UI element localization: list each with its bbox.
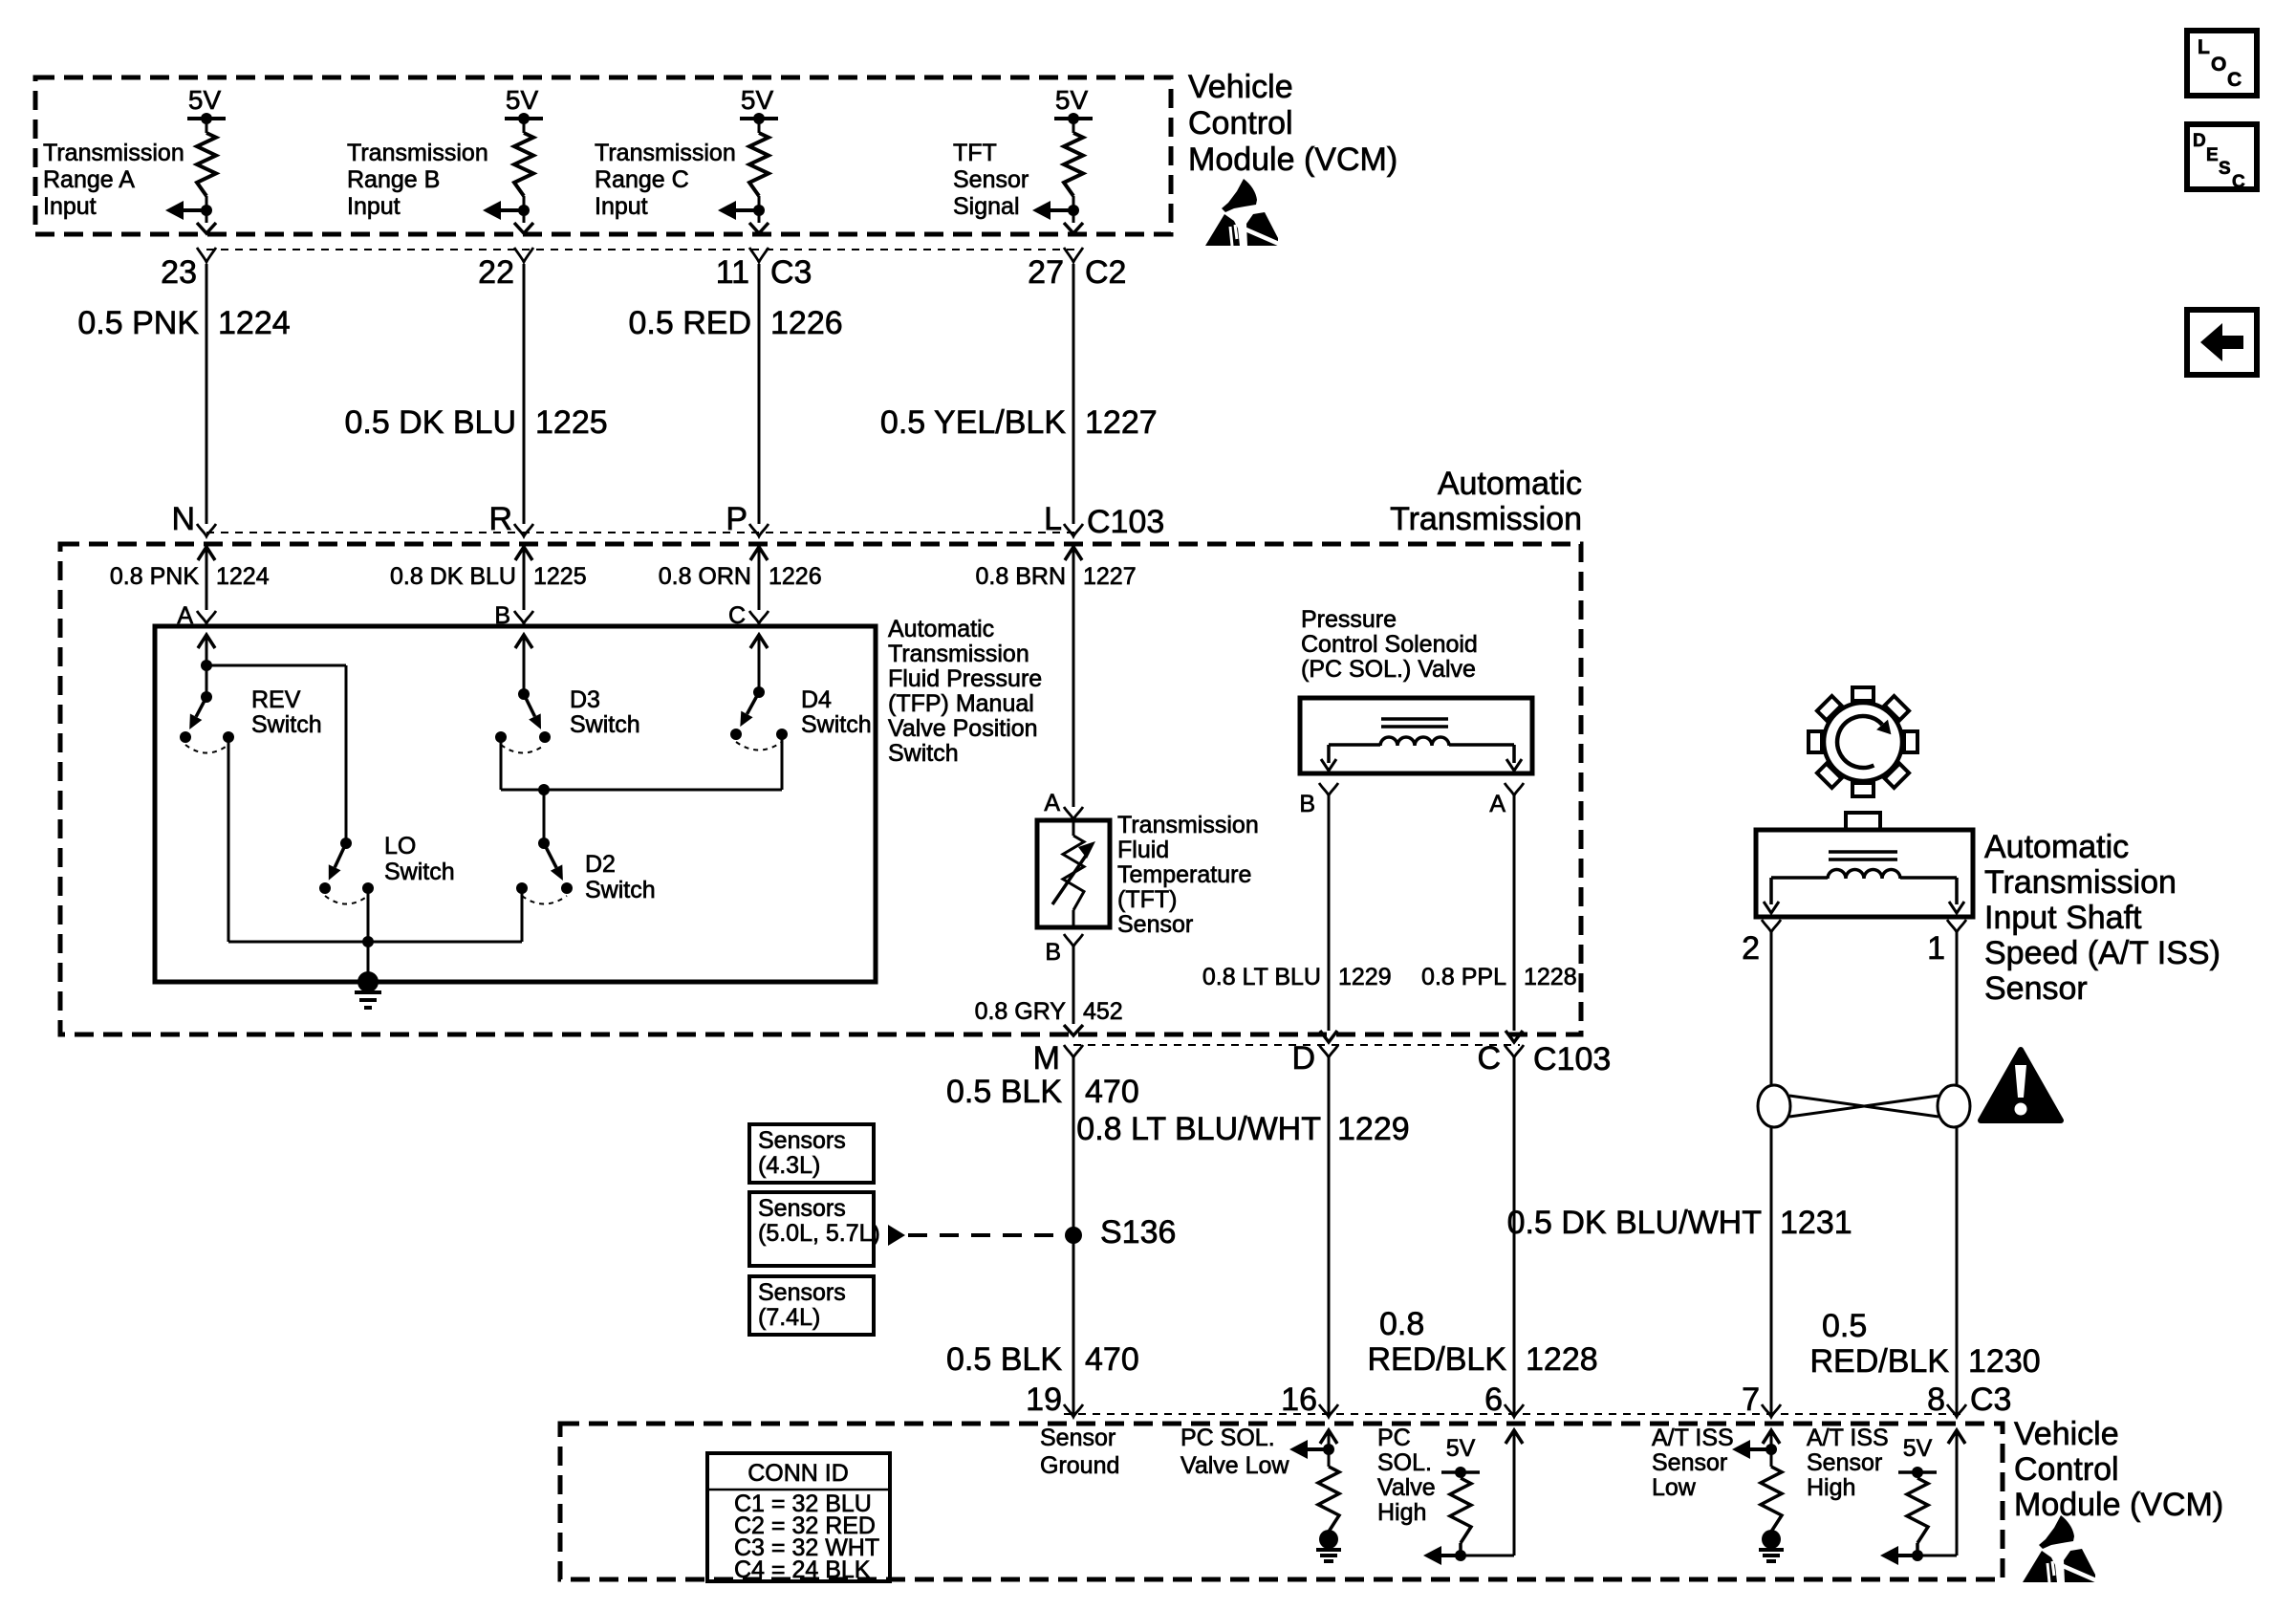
- svg-text:Switch: Switch: [888, 740, 959, 767]
- pc sol valve low input arrow: [1320, 1430, 1337, 1444]
- ground symbol PC SOL low: [1319, 1530, 1338, 1549]
- svg-text:PC SOL.: PC SOL.: [1180, 1425, 1275, 1451]
- down arrow into connector A: [197, 223, 216, 233]
- svg-text:B: B: [1045, 939, 1061, 966]
- 5V bar ISS: [1898, 1470, 1937, 1474]
- svg-text:1227: 1227: [1085, 404, 1158, 441]
- svg-text:O: O: [2211, 54, 2226, 76]
- pin B TFT connector: [1064, 934, 1083, 946]
- switch LO: [340, 838, 352, 849]
- wire A inside switch (arrow up): [198, 635, 215, 648]
- pull-up resistor Range B: [523, 119, 526, 133]
- svg-text:1229: 1229: [1337, 1111, 1410, 1147]
- svg-text:Transmission: Transmission: [43, 140, 184, 166]
- svg-text:470: 470: [1085, 1341, 1139, 1378]
- svg-text:0.8 PNK: 0.8 PNK: [110, 563, 199, 590]
- svg-text:D2: D2: [585, 851, 616, 878]
- connector row VCM pins (thin dashed): [206, 249, 1079, 250]
- svg-text:1225: 1225: [535, 404, 608, 441]
- ground symbol switch box: [357, 971, 379, 992]
- 5V bar PC SOL: [1441, 1470, 1480, 1474]
- svg-text:5V: 5V: [741, 85, 774, 115]
- wire D2 branch: [543, 790, 546, 843]
- switch D3: [518, 688, 530, 700]
- svg-text:Range A: Range A: [43, 166, 135, 193]
- svg-text:Module (VCM): Module (VCM): [2014, 1487, 2223, 1523]
- svg-text:Valve: Valve: [1377, 1474, 1436, 1501]
- svg-text:1226: 1226: [770, 305, 843, 341]
- switch REV: [201, 691, 212, 703]
- wire D2 to ground bus: [521, 888, 524, 942]
- dashed link sensors to S136: [888, 1225, 905, 1246]
- wire 1228 RED/BLK (to VCM): [1513, 1057, 1516, 1414]
- wire 1228 PPL (PC SOL to C103): [1513, 795, 1516, 1031]
- wire 1229 LT BLU/WHT (to VCM): [1328, 1057, 1331, 1414]
- svg-text:0.5 BLK: 0.5 BLK: [946, 1074, 1062, 1110]
- pull-up resistor Range A: [206, 119, 208, 133]
- 5V supply bar 4: [1054, 117, 1093, 120]
- pulldown resistor ISS low: [1761, 1467, 1782, 1532]
- component box: PC SOL valve: [1300, 698, 1532, 773]
- svg-text:A: A: [1044, 790, 1060, 816]
- svg-text:Fluid: Fluid: [1117, 837, 1169, 863]
- wire 1230 RED/BLK (ISS to VCM): [1956, 932, 1959, 1086]
- wire 1226 (C103 to switch): [758, 549, 761, 610]
- svg-text:0.5 RED: 0.5 RED: [629, 305, 752, 341]
- 5V supply bar 2: [505, 117, 543, 120]
- 5V supply bar 3: [740, 117, 778, 120]
- svg-text:(5.0L, 5.7L): (5.0L, 5.7L): [758, 1220, 880, 1247]
- svg-text:Signal: Signal: [953, 193, 1020, 220]
- svg-text:0.5 PNK: 0.5 PNK: [77, 305, 199, 341]
- ground bus wire: [228, 941, 522, 944]
- ESD sensitive device symbol bottom: [2023, 1515, 2098, 1582]
- pulldown resistor PC SOL low: [1318, 1467, 1339, 1532]
- svg-text:RED/BLK: RED/BLK: [1810, 1343, 1950, 1380]
- svg-text:N: N: [171, 501, 195, 537]
- svg-text:11: 11: [716, 254, 749, 291]
- svg-text:470: 470: [1085, 1074, 1139, 1110]
- signal tap arrow A: [182, 208, 210, 212]
- svg-text:0.8 DK BLU: 0.8 DK BLU: [390, 563, 516, 590]
- svg-text:Valve Low: Valve Low: [1180, 1452, 1289, 1479]
- svg-text:1229: 1229: [1338, 964, 1392, 990]
- wire 470 BLK upper: [1072, 1057, 1075, 1414]
- switch D4: [753, 686, 765, 698]
- svg-text:Pressure: Pressure: [1301, 606, 1397, 633]
- svg-text:Transmission: Transmission: [1984, 864, 2177, 901]
- down arrow into connector B: [514, 223, 533, 233]
- signal tap arrow TFT: [1049, 208, 1077, 212]
- svg-text:0.5 DK BLU/WHT: 0.5 DK BLU/WHT: [1507, 1205, 1762, 1241]
- svg-text:1224: 1224: [216, 563, 270, 590]
- svg-text:Automatic: Automatic: [1438, 466, 1582, 502]
- svg-text:Sensor: Sensor: [1652, 1449, 1727, 1476]
- svg-text:Input: Input: [347, 193, 401, 220]
- svg-text:(TFP) Manual: (TFP) Manual: [888, 690, 1034, 717]
- svg-text:Sensors: Sensors: [758, 1127, 846, 1154]
- wire B inside switch (arrow up): [515, 635, 532, 648]
- up arrow wire 1224: [198, 547, 215, 560]
- svg-text:S: S: [2219, 159, 2231, 179]
- pin B PC SOL connector: [1319, 783, 1338, 795]
- svg-text:M: M: [1033, 1040, 1060, 1077]
- svg-text:16: 16: [1281, 1382, 1317, 1418]
- pin 8 connector VCM: [1947, 1404, 1966, 1417]
- up arrow wire 1226: [750, 547, 768, 560]
- svg-text:CONN ID: CONN ID: [747, 1460, 849, 1487]
- svg-text:0.5 BLK: 0.5 BLK: [946, 1341, 1062, 1378]
- svg-text:2: 2: [1742, 930, 1760, 967]
- wire pin 6 to resistor: [1505, 1430, 1523, 1444]
- svg-text:Input Shaft: Input Shaft: [1984, 900, 2142, 936]
- down arrow wire 1228: [1505, 1031, 1523, 1042]
- wire REV to ground bus: [227, 737, 230, 942]
- svg-text:Sensor: Sensor: [1984, 970, 2088, 1007]
- svg-text:S136: S136: [1100, 1214, 1176, 1251]
- svg-text:L: L: [2198, 36, 2210, 58]
- svg-text:452: 452: [1083, 998, 1123, 1025]
- svg-text:5V: 5V: [1903, 1435, 1933, 1462]
- up arrow wire 1227: [1065, 547, 1082, 560]
- pin P connector C103: [749, 524, 769, 536]
- component box: Sensors (4.3L): [749, 1124, 874, 1183]
- solenoid coil PC SOL: [1381, 717, 1448, 721]
- svg-text:PC: PC: [1377, 1425, 1411, 1451]
- svg-text:(7.4L): (7.4L): [758, 1304, 820, 1331]
- wire LO to ground: [367, 888, 370, 982]
- svg-text:Transmission: Transmission: [595, 140, 736, 166]
- wire D3 to D2/D4 bus: [500, 737, 503, 790]
- wire 1227 BRN (C103 to TFT): [1072, 549, 1075, 807]
- twisted pair symbol: [1758, 1085, 1790, 1127]
- svg-text:1228: 1228: [1524, 964, 1577, 990]
- svg-text:Low: Low: [1652, 1474, 1697, 1501]
- svg-text:0.8 LT BLU/WHT: 0.8 LT BLU/WHT: [1076, 1111, 1321, 1147]
- wire A to LO switch: [206, 664, 346, 667]
- wire 1224 PNK (VCM to C103): [206, 264, 208, 524]
- svg-text:(PC SOL.) Valve: (PC SOL.) Valve: [1301, 656, 1476, 683]
- pin 27 connector: [1064, 248, 1083, 262]
- pin 7 connector VCM: [1762, 1404, 1781, 1417]
- svg-text:Automatic: Automatic: [888, 616, 994, 642]
- node D2 branch junction: [538, 784, 550, 795]
- pull-up resistor Range C: [758, 119, 761, 133]
- svg-text:Vehicle: Vehicle: [1188, 69, 1293, 105]
- back arrow nav box: [2187, 310, 2257, 375]
- wire 1227 YEL/BLK (VCM to C103): [1072, 264, 1075, 524]
- wire 1225 DK BLU (VCM to C103): [523, 264, 526, 524]
- svg-text:Transmission: Transmission: [1117, 812, 1259, 838]
- pickup coil ISS: [1829, 850, 1897, 854]
- svg-text:Switch: Switch: [384, 859, 455, 885]
- pin 22 connector: [514, 248, 533, 262]
- node A junction: [201, 660, 212, 671]
- svg-text:B: B: [1299, 791, 1315, 817]
- svg-text:Switch: Switch: [570, 711, 640, 738]
- svg-text:22: 22: [478, 254, 514, 291]
- 5V supply bar 1: [187, 117, 226, 120]
- wire D4 right contact down: [781, 734, 784, 790]
- wire 1229 LT BLU (PC SOL to C103): [1328, 795, 1331, 1031]
- svg-text:5V: 5V: [188, 85, 222, 115]
- svg-text:Range B: Range B: [347, 166, 440, 193]
- svg-text:Control Solenoid: Control Solenoid: [1301, 631, 1478, 658]
- svg-text:C: C: [1477, 1040, 1501, 1077]
- svg-text:27: 27: [1028, 254, 1064, 291]
- svg-text:Transmission: Transmission: [1390, 501, 1582, 537]
- signal tap arrow B: [499, 208, 528, 212]
- svg-text:Module (VCM): Module (VCM): [1188, 141, 1397, 178]
- svg-text:1226: 1226: [769, 563, 822, 590]
- svg-text:1224: 1224: [218, 305, 291, 341]
- svg-text:(TFT): (TFT): [1117, 886, 1177, 913]
- component box: TFT sensor: [1037, 820, 1110, 927]
- svg-text:SOL.: SOL.: [1377, 1449, 1432, 1476]
- warning triangle: [1981, 1050, 2061, 1120]
- module box: Automatic Transmission (dashed): [60, 544, 1581, 1034]
- component box: TFP manual valve position switch: [155, 626, 876, 982]
- svg-text:1231: 1231: [1780, 1205, 1852, 1241]
- svg-text:A/T ISS: A/T ISS: [1807, 1425, 1889, 1451]
- svg-text:(4.3L): (4.3L): [758, 1152, 820, 1179]
- svg-text:Sensor: Sensor: [953, 166, 1029, 193]
- svg-text:TFT: TFT: [953, 140, 997, 166]
- pin 23 connector: [197, 248, 216, 262]
- wire pin 8 to resistor: [1948, 1430, 1965, 1444]
- svg-text:8: 8: [1927, 1382, 1945, 1418]
- svg-text:REV: REV: [251, 686, 301, 713]
- wire C inside switch (arrow up): [750, 635, 768, 648]
- ESD sensitive device symbol top: [1205, 179, 1281, 246]
- svg-text:1230: 1230: [1968, 1343, 2041, 1380]
- svg-text:C3: C3: [1970, 1382, 2011, 1418]
- DESC nav box: [2187, 124, 2257, 189]
- svg-text:0.8 LT BLU: 0.8 LT BLU: [1202, 964, 1321, 990]
- svg-text:Speed (A/T ISS): Speed (A/T ISS): [1984, 935, 2220, 971]
- svg-text:D: D: [1291, 1040, 1315, 1077]
- svg-text:1228: 1228: [1526, 1341, 1598, 1378]
- svg-text:Sensor: Sensor: [1040, 1425, 1116, 1451]
- svg-text:Transmission: Transmission: [347, 140, 488, 166]
- svg-text:5V: 5V: [1055, 85, 1089, 115]
- component box: A/T ISS sensor: [1846, 813, 1880, 830]
- svg-text:C2: C2: [1085, 254, 1126, 291]
- svg-text:0.5 YEL/BLK: 0.5 YEL/BLK: [880, 404, 1066, 441]
- pin A TFT connector: [1064, 807, 1083, 819]
- pin 19 connector VCM: [1064, 1404, 1083, 1417]
- svg-text:Sensors: Sensors: [758, 1279, 846, 1306]
- svg-text:Sensor: Sensor: [1117, 911, 1193, 938]
- switch D2: [538, 838, 550, 849]
- wire 1231 DK BLU/WHT (ISS to VCM): [1770, 932, 1773, 1086]
- splice S136: [1065, 1227, 1082, 1244]
- svg-text:Sensors: Sensors: [758, 1195, 846, 1222]
- connector C103 row (thin dashed): [206, 532, 1079, 533]
- LOC nav box: [2187, 31, 2257, 96]
- svg-text:A: A: [1489, 791, 1505, 817]
- pin 6 connector VCM: [1505, 1404, 1524, 1417]
- svg-text:Fluid Pressure: Fluid Pressure: [888, 665, 1042, 692]
- pin C switch connector: [749, 611, 769, 623]
- pin 16 connector VCM: [1319, 1404, 1338, 1417]
- ground symbol ISS low: [1762, 1530, 1781, 1549]
- svg-text:R: R: [488, 501, 512, 537]
- svg-text:6: 6: [1484, 1382, 1503, 1418]
- svg-text:C103: C103: [1087, 504, 1164, 540]
- module box: Vehicle Control Module (VCM) bottom: [560, 1424, 2003, 1579]
- svg-text:L: L: [1044, 501, 1062, 537]
- svg-text:C: C: [2232, 172, 2245, 192]
- svg-text:0.8 PPL: 0.8 PPL: [1421, 964, 1506, 990]
- svg-text:C103: C103: [1533, 1041, 1611, 1077]
- pin N connector C103: [197, 524, 216, 536]
- svg-text:0.5: 0.5: [1822, 1308, 1867, 1344]
- connector C103 row 2 (thin dashed): [1073, 1044, 1520, 1046]
- pin 11 connector: [749, 248, 769, 262]
- pin 1 ISS connector: [1947, 920, 1966, 932]
- svg-text:Vehicle: Vehicle: [2014, 1416, 2119, 1452]
- svg-text:LO: LO: [384, 833, 416, 859]
- signal tap arrow C: [734, 208, 763, 212]
- svg-text:Switch: Switch: [801, 711, 872, 738]
- connector row bottom VCM (thin dashed): [1064, 1413, 1962, 1415]
- svg-text:Input: Input: [595, 193, 648, 220]
- down arrow wire 1229: [1320, 1031, 1337, 1042]
- svg-text:P: P: [726, 501, 747, 537]
- svg-text:Transmission: Transmission: [888, 641, 1029, 667]
- variable resistor TFT: [1072, 822, 1075, 836]
- iss sensor low input arrow: [1763, 1430, 1780, 1444]
- gear rotation icon: [1809, 687, 1917, 796]
- svg-text:19: 19: [1026, 1382, 1062, 1418]
- down arrow wire 452: [1064, 1025, 1083, 1035]
- pin C connector C103: [1505, 1045, 1524, 1057]
- svg-text:High: High: [1377, 1499, 1426, 1526]
- svg-text:Ground: Ground: [1040, 1452, 1119, 1479]
- svg-text:Input: Input: [43, 193, 97, 220]
- CONN ID table: [707, 1453, 890, 1581]
- up arrow wire 1225: [515, 547, 532, 560]
- svg-text:Control: Control: [2014, 1451, 2119, 1488]
- svg-text:5V: 5V: [1446, 1435, 1476, 1462]
- svg-text:1227: 1227: [1083, 563, 1137, 590]
- pull-up resistor TFT signal: [1072, 119, 1075, 133]
- pin D connector C103: [1319, 1045, 1338, 1057]
- svg-text:0.5 DK BLU: 0.5 DK BLU: [344, 404, 516, 441]
- node ground bus junction: [362, 936, 374, 947]
- svg-text:D4: D4: [801, 686, 832, 713]
- svg-text:7: 7: [1742, 1382, 1760, 1418]
- pin M connector C103: [1064, 1045, 1083, 1057]
- svg-text:5V: 5V: [506, 85, 539, 115]
- svg-text:C4 = 24 BLK: C4 = 24 BLK: [734, 1556, 871, 1583]
- svg-text:Range C: Range C: [595, 166, 689, 193]
- pin R connector C103: [514, 524, 533, 536]
- svg-text:RED/BLK: RED/BLK: [1368, 1341, 1507, 1378]
- svg-text:C: C: [2227, 69, 2242, 91]
- pin B switch connector: [514, 611, 533, 623]
- svg-text:1: 1: [1927, 930, 1945, 967]
- svg-text:Control: Control: [1188, 105, 1293, 141]
- svg-text:Automatic: Automatic: [1984, 829, 2129, 865]
- wire 1225 (C103 to switch): [523, 549, 526, 610]
- svg-text:0.8 BRN: 0.8 BRN: [976, 563, 1066, 590]
- pin 2 ISS connector: [1762, 920, 1781, 932]
- pin A PC SOL connector: [1505, 783, 1524, 795]
- wire 452 GRY (TFT to C103): [1072, 946, 1075, 1024]
- down arrow into connector C: [749, 223, 769, 233]
- wire 1224 (C103 to switch): [206, 549, 208, 610]
- svg-text:C3: C3: [770, 254, 812, 291]
- svg-text:0.8 GRY: 0.8 GRY: [975, 998, 1067, 1025]
- pullup resistor PC SOL high: [1450, 1478, 1471, 1543]
- svg-text:0.8 ORN: 0.8 ORN: [659, 563, 751, 590]
- pullup resistor ISS high: [1907, 1478, 1928, 1543]
- svg-text:1225: 1225: [533, 563, 587, 590]
- module box: Vehicle Control Module (VCM) top: [35, 77, 1171, 234]
- svg-text:A/T ISS: A/T ISS: [1652, 1425, 1734, 1451]
- pin A switch connector: [197, 611, 216, 623]
- svg-text:D3: D3: [570, 686, 600, 713]
- svg-text:High: High: [1807, 1474, 1855, 1501]
- svg-text:0.8: 0.8: [1379, 1306, 1424, 1342]
- down arrow into connector TFT: [1064, 223, 1083, 233]
- svg-text:Switch: Switch: [251, 711, 322, 738]
- wire 1226 RED (VCM to C103): [758, 264, 761, 524]
- svg-text:Valve Position: Valve Position: [888, 715, 1038, 742]
- svg-text:Sensor: Sensor: [1807, 1449, 1882, 1476]
- component box: Sensors (7.4L): [749, 1276, 874, 1335]
- svg-text:Switch: Switch: [585, 877, 656, 903]
- component box: Sensors (5.0L, 5.7L): [749, 1192, 874, 1266]
- svg-text:Temperature: Temperature: [1117, 861, 1251, 888]
- pin L connector C103: [1064, 524, 1083, 536]
- svg-text:23: 23: [161, 254, 197, 291]
- svg-text:E: E: [2206, 145, 2219, 165]
- svg-text:D: D: [2193, 131, 2206, 151]
